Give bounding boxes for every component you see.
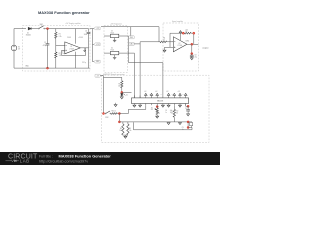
svg-text:U1: U1 [70,46,72,48]
svg-text:R8: R8 [120,128,122,130]
ground under C8 [190,58,193,60]
wire row1 [119,105,145,113]
op-amp U2 [173,37,187,52]
bottom ground rail [14,51,90,68]
svg-text:+5V: +5V [96,28,99,30]
resistor R6 [185,30,192,34]
net flag REF [129,36,134,39]
svg-text:D2: D2 [126,94,128,96]
footer title text [39,154,111,159]
ground flag pin7 [167,105,170,107]
svg-text:C3 1µ: C3 1µ [82,62,86,64]
svg-text:LT1006: LT1006 [69,48,74,50]
switch SW1 [38,24,44,29]
svg-text:79L05: 79L05 [110,50,114,52]
svg-text:100n: 100n [84,34,88,36]
IC U5 MAX038 body [132,98,189,104]
svg-text:MAX038 Function generator: MAX038 Function generator [38,10,90,15]
svg-text:10k: 10k [171,112,173,114]
sync cap loop [188,122,192,128]
node dot sync [102,112,104,114]
regulator U3 [104,30,129,37]
ground below rail 2 [179,123,182,125]
node dot R5/D2 [121,91,123,93]
test point box [63,50,66,53]
svg-text:REF: REF [130,37,133,39]
node B junction dot [46,67,48,69]
wire V1 to diode [14,29,26,46]
power flag above pin x=145.8 [145,93,148,95]
CircuitLab logo [6,154,39,164]
signal rail top [101,27,159,42]
dashed box: +5V regulators [104,23,128,73]
ground under R8 R9 [123,135,128,138]
svg-text:P2: P2 [151,107,153,109]
svg-text:1n: 1n [182,129,184,131]
schematic title [38,10,90,15]
svg-text:U4: U4 [111,48,113,50]
output wire U2 [186,40,209,49]
capacitor C4 [84,29,91,69]
LED D2 ground [120,96,123,99]
inverting input wire [166,46,173,48]
capacitor C5 [185,106,190,114]
node dot row2 [118,121,120,123]
svg-text:R12: R12 [176,111,179,113]
U1 supply stub bottom [74,52,76,68]
svg-text:+5V: +5V [178,91,180,93]
svg-text:MAX038 Function Generator: MAX038 Function Generator [59,154,112,159]
power flag above pin x=151.5 [150,93,153,95]
resistor R7 to ground [163,47,166,52]
resistor R4 [160,38,173,43]
svg-text:1k: 1k [163,39,165,41]
ground flag pin2 [139,105,142,107]
IC bottom pin stubs [134,104,185,106]
pot P2 ground [156,115,159,119]
svg-text:R4: R4 [163,38,165,40]
ground below rail 1 [167,123,170,125]
svg-text:LAB: LAB [20,159,30,164]
svg-text:U2: U2 [179,43,181,45]
wire row1 drop [118,114,120,122]
svg-text:+2.50V: +2.50V [78,37,83,39]
svg-text:R10 1k: R10 1k [112,110,117,112]
footer bar [0,152,220,165]
labels above IC [144,91,184,96]
svg-text:http://circuitlab.com/cma397v: http://circuitlab.com/cma397v [39,160,88,164]
power flag above pin x=180.0 [179,93,182,95]
feedback wire U1 [62,48,86,55]
dashed box: +5V supply amplifier [23,22,91,71]
U2 supply stub [179,31,182,40]
ground U3 [113,38,116,42]
node A junction dot [46,27,48,29]
wire rail to flags [90,29,94,62]
capacitor C8 [190,54,197,59]
resistor R5 [118,77,123,87]
wire pin to out1 [186,104,188,107]
net flag +2.5V mid [94,43,100,46]
ground flag near SW2 [114,103,117,107]
svg-text:2.50V: 2.50V [67,37,71,39]
U1 supply stub top [74,29,76,44]
svg-text:MAX038 Signal generator: MAX038 Signal generator [103,73,125,76]
svg-text:R2: R2 [59,53,61,55]
diode D1 [26,27,32,36]
IC top pin stubs [134,95,185,98]
footer url text [39,160,88,164]
svg-text:C4: C4 [85,31,87,33]
feedback riser [170,33,183,47]
svg-text:R1: R1 [59,34,61,36]
svg-text:2.2k: 2.2k [59,36,62,38]
power flag above pin x=185.7 [184,93,187,95]
wire diode to switch [31,28,38,30]
svg-text:GND: GND [96,61,99,63]
bottom rail [119,121,192,123]
svg-text:SW1: SW1 [40,24,44,26]
svg-text:470µ: 470µ [43,45,47,47]
power flag above pin x=174.3 [173,93,176,95]
svg-text:1n: 1n [165,112,167,114]
feedback node dot [182,32,184,34]
svg-text:+5V: +5V [166,91,168,93]
net flag DADJ [129,42,134,45]
svg-text:+5V: +5V [144,91,146,93]
svg-text:SW2: SW2 [105,117,108,119]
svg-text:10k: 10k [118,85,121,87]
svg-text:+5V: +5V [96,75,99,77]
node dot out1 [187,105,189,107]
svg-text:output: output [202,46,208,49]
bus wire B [119,53,135,98]
potentiometer P2 [151,105,160,114]
svg-text:+2.5V: +2.5V [96,44,100,46]
dashed box: signal amplifier [163,20,199,71]
voltage source V1 [11,45,21,51]
resistor R8 [119,122,124,135]
node dot row1 [118,112,120,114]
svg-text:10k: 10k [129,130,132,132]
ground flag pin1 [133,105,136,107]
capacitor C1 [43,29,50,69]
wire LED node to IC [122,91,132,93]
label +2.50V over op-amp [67,37,83,39]
ground U4 [113,55,116,59]
resistor R10 [111,110,120,114]
node dot bottom right [187,126,189,128]
svg-text:R5: R5 [119,83,121,85]
wire divider middle [56,38,65,52]
svg-text:10k: 10k [176,112,178,114]
feedback output dot [193,32,195,34]
svg-text:C9: C9 [182,127,184,129]
resistor R11 [171,105,179,122]
svg-text:U3: U3 [111,30,113,32]
svg-text:D1: D1 [27,33,29,35]
svg-text:R11: R11 [171,111,174,113]
svg-text:LT1364: LT1364 [178,45,183,47]
label C9 [182,127,184,131]
label C3 [82,62,86,64]
node dot rail right [187,121,189,123]
output ref flag [84,48,86,52]
svg-text:+5V Supply amplifier: +5V Supply amplifier [65,22,81,25]
svg-text:Full title :: Full title : [39,155,53,159]
svg-text:10k: 10k [185,31,187,33]
dashed box: MAX038 signal generator [102,73,210,143]
+5V feed flag box4 [95,74,100,77]
bus wire A [129,36,163,95]
left feed wire box4 [100,76,122,114]
power flag above pin x=168.6 [167,93,170,95]
output wire U1 [80,47,88,49]
load branch [191,44,193,53]
net flag +5V top [94,27,100,30]
feedback return [191,33,194,44]
svg-text:+5V: +5V [155,91,157,93]
switch SW2 [105,111,111,119]
power flag above pin x=157.2 [156,93,159,95]
regulator U4 [104,48,119,55]
output node dot [191,43,193,45]
resistor R2 [55,52,62,58]
svg-text:10k: 10k [119,130,122,132]
net flag GND [94,60,100,63]
svg-text:C1: C1 [44,42,46,44]
svg-text:1MHz: 1MHz [186,40,190,42]
ground flag pin9 [179,105,182,107]
node dot FREQ pot [156,105,158,107]
labels under IC [165,110,172,114]
svg-text:1N4001: 1N4001 [26,35,32,37]
svg-text:C5: C5 [185,108,187,110]
op-amp U1 [65,42,81,54]
LED D2 [121,94,128,97]
svg-text:C8: C8 [195,55,197,57]
resistor R9 [127,122,132,135]
wire DADJ to signal riser [134,43,140,45]
svg-text:78L05: 78L05 [110,32,114,34]
svg-text:+5V Regulators: +5V Regulators [110,23,122,26]
wire rail to REF flag [130,27,132,36]
wire R2 to ground rail [55,58,57,68]
svg-text:R9: R9 [129,128,131,130]
ground under C5 [187,114,190,116]
resistor R1 [55,29,62,39]
bottom return wire [134,122,193,130]
svg-text:22p: 22p [195,56,198,58]
wire R5 to LED [121,88,123,93]
load node dot [191,52,193,54]
signal riser to IC [140,42,160,98]
svg-text:C6: C6 [165,110,167,112]
svg-text:25k: 25k [151,109,153,111]
top +5V rail [48,28,89,30]
wire switch to node A [45,28,48,30]
ground flag pin6 [161,105,164,107]
